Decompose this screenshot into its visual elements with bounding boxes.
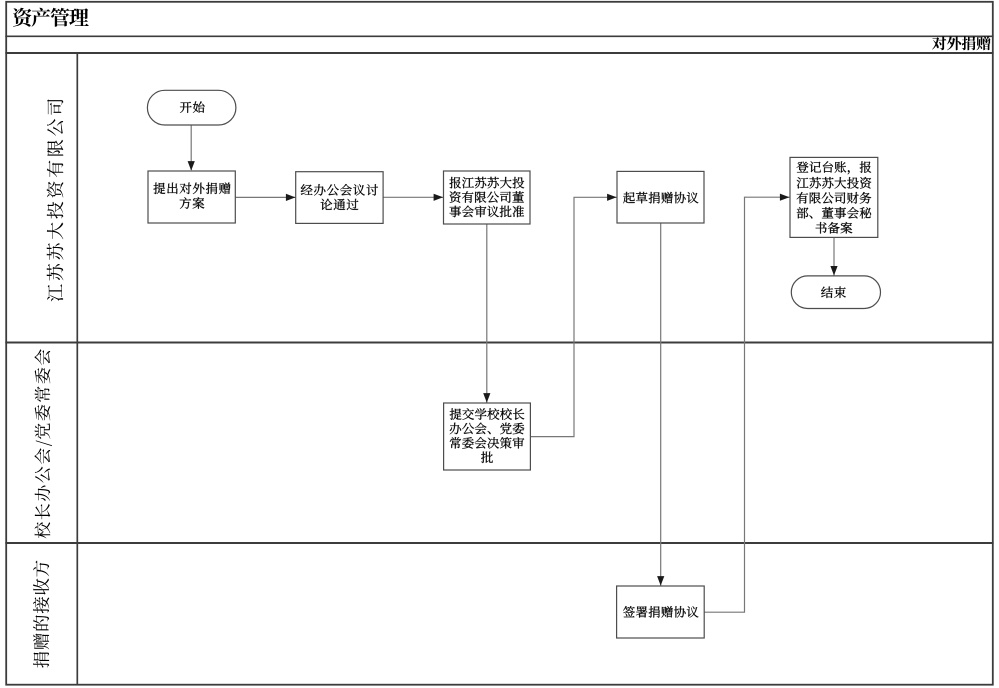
band header 对外捐赠 — [932, 36, 990, 50]
process box3 报江苏苏大投资有限公司董事会审议批准 — [444, 171, 531, 224]
process box1 提出对外捐赠方案 — [148, 171, 235, 223]
lane1 label 江苏苏大投资有限公司 — [47, 99, 64, 301]
wire: start to box1 — [190, 125, 192, 170]
process box7 登记台账备案 — [790, 157, 878, 237]
arrowhead into box4 — [483, 393, 490, 403]
process box2 经办公会议讨论通过 — [296, 172, 383, 224]
box3 text 报江苏苏大投资有限公司董事会审议批准 — [450, 177, 525, 189]
wire: box1 to box2 — [235, 196, 295, 198]
wire: box5 down to box6 — [660, 223, 662, 586]
box1 text 提出对外捐赠方案 — [154, 183, 231, 195]
process box4 提交学校校长办公会、党委常委会决策审批 — [444, 403, 531, 470]
arrowhead into box7 — [780, 194, 790, 201]
process box6 签署捐赠协议 — [617, 586, 705, 638]
header band bottom line — [5, 52, 993, 54]
box7 text 登记台账报备案 — [797, 161, 872, 174]
arrowhead into box2 — [286, 194, 296, 201]
box4 text 提交学校校长办公会、党委常委会决策审批 — [450, 408, 525, 420]
arrowhead into box5 — [607, 194, 617, 201]
box5 text 起草捐赠协议 — [623, 192, 698, 204]
arrowhead into box3 — [434, 194, 444, 201]
arrowhead into box1 — [188, 161, 195, 171]
start label 开始 — [180, 101, 204, 113]
box2 text 经办公会议讨论通过 — [301, 184, 378, 196]
process box5 起草捐赠协议 — [617, 171, 704, 223]
title separator line — [5, 35, 993, 37]
wire: box2 to box3 — [383, 196, 443, 198]
wire: box6 right-up to box7 — [704, 197, 789, 612]
lane divider 1 — [5, 342, 993, 344]
page title 资产管理 — [13, 8, 89, 27]
lane2 label 校长办公会/党委常委会 — [35, 349, 52, 538]
wire: box3 down to box4 — [486, 224, 488, 403]
box6 text 签署捐赠协议 — [623, 606, 698, 618]
wire: box7 down to end — [833, 237, 835, 276]
start terminator oval — [147, 90, 236, 125]
lane3 label 捐赠的接收方 — [33, 561, 49, 668]
arrowhead into box6 — [657, 576, 664, 586]
lane label column line — [76, 53, 78, 685]
wire: box4 right-up to box5 — [530, 197, 617, 436]
arrowhead into end oval — [830, 266, 837, 276]
lane divider 2 — [5, 542, 993, 544]
end terminator oval — [791, 276, 880, 309]
end label 结束 — [821, 287, 846, 299]
